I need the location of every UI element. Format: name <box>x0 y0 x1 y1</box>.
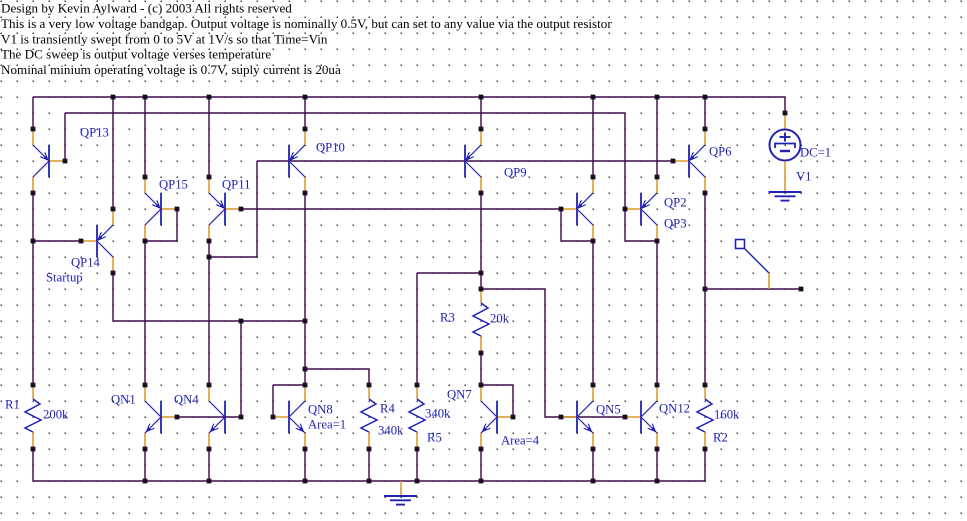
transistor QN4 <box>207 383 244 452</box>
transistor QP13 <box>31 127 68 196</box>
svg-text:QN8: QN8 <box>308 403 333 417</box>
svg-text:QP10: QP10 <box>316 141 345 155</box>
svg-text:Design by Kevin Aylward - (c): Design by Kevin Aylward - (c) 2003 All r… <box>1 1 292 16</box>
wire QP2 collector to QN5 collector <box>592 241 594 385</box>
svg-text:QN5: QN5 <box>596 403 621 417</box>
svg-text:160k: 160k <box>714 408 740 422</box>
svg-text:QP11: QP11 <box>222 178 250 192</box>
transistor QP3 <box>623 175 660 244</box>
wire V+ top rail with taps <box>33 95 785 209</box>
resistor R1 <box>25 383 41 452</box>
svg-text:QN1: QN1 <box>111 393 136 407</box>
svg-text:R4: R4 <box>380 402 395 416</box>
svg-text:QP6: QP6 <box>709 145 732 159</box>
wire QP11 collector to PNP base bus and QN4 collector <box>207 161 257 385</box>
transistor QP14 <box>79 207 116 276</box>
svg-text:R5: R5 <box>427 431 442 445</box>
wire QN7 base-collector tie <box>481 385 513 417</box>
svg-text:QP2: QP2 <box>664 196 687 210</box>
wire output node (y=289) <box>705 287 803 292</box>
svg-text:DC=1: DC=1 <box>800 146 831 160</box>
svg-text:QP14: QP14 <box>71 256 101 270</box>
svg-text:R3: R3 <box>440 311 455 325</box>
transistor QP11 <box>207 175 244 244</box>
wire V- bottom rail with taps <box>33 449 705 483</box>
svg-text:This is a very low voltage ban: This is a very low voltage bandgap. Outp… <box>1 16 612 31</box>
resistor R5 <box>409 383 425 452</box>
transistor QN8 <box>271 383 308 452</box>
wire QP6 collector to output node and R2 <box>703 193 708 385</box>
svg-text:Area=4: Area=4 <box>501 434 540 448</box>
wire QP2 base-collector tie <box>561 209 593 241</box>
transistor QP2 <box>559 175 596 244</box>
wire R3 bottom to QN7 collector <box>480 353 482 385</box>
svg-text:V1: V1 <box>796 170 812 184</box>
svg-text:R2: R2 <box>713 431 728 445</box>
svg-text:Startup: Startup <box>46 271 83 285</box>
wire QP13 collector to QP14 base and R1 <box>31 193 81 385</box>
svg-text:340k: 340k <box>425 407 451 421</box>
resistor R4 <box>361 383 377 452</box>
transistor QN1 <box>143 383 180 452</box>
resistor R2 <box>697 383 713 452</box>
wire QP15 diode tie and collector drop to QN1 <box>145 209 177 385</box>
transistor QN7 <box>479 383 516 452</box>
transistor QN5 <box>559 383 596 452</box>
svg-text:R1: R1 <box>5 398 20 412</box>
transistor QP9 <box>465 127 483 196</box>
transistor QP6 <box>671 127 708 196</box>
svg-text:V1 is transiently swept from 0: V1 is transiently swept from 0 to 5V at … <box>1 31 328 46</box>
wire QP14 collector to QN4 base and QP10 collector <box>113 273 305 417</box>
svg-text:Nominal minium operating volta: Nominal minium operating voltage is 0.7V… <box>1 62 341 77</box>
svg-text:The DC sweep is output voltage: The DC sweep is output voltage verses te… <box>1 47 271 62</box>
voltage source V1 <box>770 111 801 191</box>
svg-text:QN12: QN12 <box>659 402 690 416</box>
svg-text:340k: 340k <box>378 424 404 438</box>
svg-text:QP15: QP15 <box>159 178 188 192</box>
svg-text:QP9: QP9 <box>504 166 527 180</box>
ground main (bottom rail) <box>400 481 402 495</box>
transistor QP10 <box>289 127 307 196</box>
svg-text:QP3: QP3 <box>664 217 687 231</box>
wire QN8 base-collector tie <box>273 385 305 417</box>
svg-text:20k: 20k <box>490 312 510 326</box>
svg-text:200k: 200k <box>43 408 69 422</box>
wire QP3 collector to QN12 collector <box>656 241 658 385</box>
wire QP9 collector to R3 and R5 <box>417 193 483 385</box>
svg-text:QN4: QN4 <box>174 393 199 407</box>
svg-text:Area=1: Area=1 <box>308 418 346 432</box>
wire QP10 collector drop to QN8 <box>303 193 369 385</box>
resistor R3 <box>473 287 489 356</box>
wire PNP common base line (y=161) QP10/QP9/QP6 <box>257 160 673 162</box>
svg-text:QP13: QP13 <box>80 126 109 140</box>
output probe marker <box>736 240 770 290</box>
transistor QP15 <box>143 175 180 244</box>
wire R3 top to QN5/QN12 base line <box>481 289 625 417</box>
transistor QN12 <box>623 383 660 452</box>
title text block <box>1 1 612 77</box>
wire QP13 base rail (y=113) to QP3 collector <box>65 113 657 241</box>
ground for V1 <box>769 192 802 201</box>
svg-text:QN7: QN7 <box>447 388 472 402</box>
wire QP11 base line (y=209) <box>241 208 561 210</box>
wire QN1 base to QN4 base column <box>177 416 241 418</box>
